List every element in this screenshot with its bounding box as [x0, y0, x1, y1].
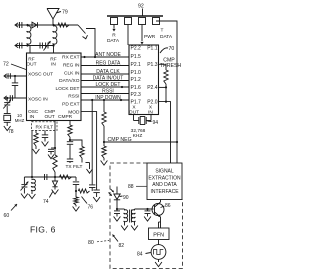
node row1-a [26, 24, 28, 26]
svg-text:MHZ: MHZ [15, 118, 25, 123]
svg-text:82: 82 [119, 243, 125, 249]
svg-text:DATA IN/OUT: DATA IN/OUT [93, 76, 124, 82]
resistor cmpr [68, 125, 72, 137]
capacitor chain1 [44, 174, 46, 180]
svg-text:70: 70 [169, 46, 175, 52]
ground xfmr-sec [131, 226, 138, 231]
crystal Y1 10MHZ [4, 113, 11, 115]
svg-text:IN: IN [148, 109, 153, 115]
ground bl-varicap [21, 194, 28, 199]
transformer T1 secondary [131, 209, 135, 223]
svg-text:P2.3: P2.3 [131, 92, 142, 98]
svg-text:INP DOWN: INP DOWN [95, 95, 121, 101]
svg-text:74: 74 [43, 199, 49, 205]
diode D1 [32, 22, 37, 28]
svg-text:AND DATA: AND DATA [152, 182, 177, 188]
off-page arrow xosc-in [4, 96, 7, 100]
svg-text:FIG. 6: FIG. 6 [30, 225, 56, 235]
varicap C3 [45, 43, 47, 49]
svg-text:92: 92 [138, 4, 144, 10]
ground mod-end [93, 197, 100, 202]
svg-text:IN: IN [30, 114, 35, 120]
svg-text:94: 94 [153, 120, 159, 126]
inductor bl [31, 179, 35, 193]
wire row2 [15, 45, 54, 47]
svg-text:P2.4: P2.4 [147, 85, 158, 91]
node cmpneg-right [176, 141, 178, 143]
resistor cmp-out [53, 155, 57, 172]
crystal Y2 [138, 117, 140, 124]
svg-text:90: 90 [123, 195, 129, 201]
svg-text:P1.1: P1.1 [147, 46, 158, 52]
label 90 [120, 195, 123, 198]
transformer core [129, 210, 131, 223]
wire RF IN stub [53, 46, 55, 54]
svg-text:REG DATA: REG DATA [96, 61, 121, 67]
svg-text:OUT: OUT [45, 114, 55, 120]
wire P1.3 [159, 64, 167, 70]
wire chain1 left-down [23, 177, 25, 184]
PFN box [149, 228, 170, 240]
varicap bl [21, 184, 27, 186]
node P2.0 join [165, 101, 167, 103]
off-page arrow row2 [15, 43, 18, 47]
capacitor base [147, 209, 149, 211]
svg-text:ANT NODE: ANT NODE [95, 52, 121, 58]
off-page arrow xosc-out [4, 74, 7, 78]
node chain1-a [31, 176, 33, 178]
wire P2.4 [159, 86, 167, 88]
wire xosc-in row [4, 97, 27, 99]
node lockdet-jog [121, 86, 123, 88]
node cmpneg-top [103, 99, 105, 101]
node inpdown-jog [120, 99, 122, 101]
svg-text:76: 76 [88, 205, 94, 211]
ground base-cap [144, 217, 151, 222]
wire osc-gnd [158, 259, 160, 262]
capacitor xosc-out [7, 73, 9, 79]
wire crystal branch [6, 98, 8, 102]
interface box 88 [147, 163, 182, 200]
wire chain2 up [91, 188, 93, 191]
resistor row1 [58, 23, 69, 27]
varicap crystal trim [4, 102, 10, 104]
photodiode 90 [116, 187, 118, 195]
microcontroller IC U2 [129, 45, 159, 115]
label 94 [148, 120, 152, 123]
svg-text:KHZ: KHZ [133, 133, 143, 139]
wire osc-in down [31, 121, 33, 178]
node xosc-in [6, 97, 8, 99]
svg-text:XOSC OUT: XOSC OUT [28, 71, 53, 77]
capacitor Cx between xosc rows [14, 76, 16, 83]
svg-text:P1.2: P1.2 [131, 77, 142, 83]
capacitor mod-end [93, 189, 99, 191]
svg-text:CLK IN: CLK IN [64, 70, 80, 76]
wire PFN-osc [158, 240, 160, 245]
wire sec-base [135, 208, 154, 210]
resistor rxfilt [35, 131, 37, 134]
svg-text:OUT: OUT [129, 109, 139, 115]
svg-text:P2.2: P2.2 [131, 46, 142, 52]
wire switch to RX EXT [86, 29, 95, 58]
svg-text:84: 84 [137, 252, 143, 258]
wire cmp-out down [54, 121, 56, 156]
svg-text:OUT: OUT [26, 61, 36, 67]
svg-text:DATA: DATA [107, 38, 120, 44]
svg-text:MOD: MOD [68, 109, 80, 115]
wire P2.0 [159, 102, 171, 163]
bus wires U1-U2 [81, 56, 129, 58]
svg-text:DATA/XO: DATA/XO [59, 78, 80, 84]
svg-text:T: T [161, 28, 164, 34]
antenna 79 [47, 9, 59, 20]
node cmp-out tap [54, 147, 56, 149]
svg-text:LOCK DET: LOCK DET [95, 82, 120, 88]
svg-text:60: 60 [4, 213, 10, 219]
transistor Q1 86 [152, 204, 164, 216]
wire collector [160, 200, 162, 203]
capacitor row2-left [19, 43, 21, 49]
capacitor row1-left [19, 22, 21, 28]
svg-text:RSSI: RSSI [102, 89, 114, 95]
svg-text:INTERFACE: INTERFACE [150, 189, 179, 195]
connector 92 bar [107, 15, 163, 17]
ground bl-down [73, 207, 80, 212]
svg-text:DATA: DATA [160, 34, 173, 40]
wire RF OUT stub [29, 46, 31, 54]
node det [116, 208, 118, 210]
capacitor bl-right [73, 181, 79, 183]
node row1-ant [52, 24, 54, 26]
node row2-a [26, 44, 28, 46]
node inpdown-tap [91, 99, 93, 101]
node cap-tap [146, 208, 148, 210]
node antnode-stub [83, 56, 85, 58]
ground xfmr-pri [121, 226, 128, 231]
off-page arrow row1 [15, 23, 18, 27]
diode bl to gnd [54, 177, 56, 181]
ground bl-coil [29, 194, 36, 199]
svg-text:RSSI: RSSI [68, 94, 79, 100]
node chain1-b [54, 176, 56, 178]
svg-text:P1.3: P1.3 [147, 62, 158, 68]
wire pin1 R DATA [113, 25, 115, 29]
svg-text:SIGNAL: SIGNAL [155, 169, 174, 175]
capacitor row2-mid [39, 43, 41, 49]
capacitor det [116, 209, 118, 211]
wire xin stub [150, 115, 152, 121]
svg-text:P2.1: P2.1 [131, 62, 142, 68]
node switch-antnode [94, 56, 96, 58]
transformer T1 primary [124, 209, 128, 223]
resistor cmpneg-1 [102, 112, 106, 126]
svg-text:XOSC IN: XOSC IN [28, 96, 48, 102]
wire varicap-crystal [6, 106, 8, 114]
wire pin3 arrow [141, 25, 143, 42]
connector 92 pins [111, 18, 118, 25]
svg-text:78: 78 [8, 129, 14, 135]
svg-text:PFN: PFN [153, 232, 164, 238]
capacitor cmpr-1 [69, 140, 71, 141]
svg-text:EXTRACTION: EXTRACTION [148, 175, 181, 181]
capacitor cmp-out side [51, 147, 55, 149]
switch S1 blade [78, 25, 86, 34]
svg-text:P1.5: P1.5 [131, 54, 142, 60]
svg-text:PD EXT: PD EXT [62, 102, 79, 108]
svg-text:TX FILT: TX FILT [66, 164, 83, 170]
wire xosc-out row [4, 75, 27, 77]
transceiver IC U1 [27, 53, 82, 121]
wire chain1 [24, 176, 76, 178]
wire pin2 [127, 25, 129, 46]
svg-text:IN: IN [51, 61, 56, 67]
wire row1 [15, 24, 78, 26]
node cmpr-a [69, 139, 71, 141]
wire xout stub [133, 115, 135, 121]
label 79 [56, 12, 61, 14]
svg-text:P1.6: P1.6 [131, 85, 142, 91]
inductor L2 [53, 25, 57, 46]
module box 80 [110, 163, 183, 269]
ground det-cap [114, 217, 121, 222]
ground cmp-out side [48, 155, 54, 159]
resistor chain2-h [78, 189, 89, 193]
node row2-b [52, 44, 54, 46]
capacitor rxfilt [44, 131, 46, 135]
node chain2-a [75, 190, 77, 192]
wire varicap-gnd [23, 188, 25, 194]
label 70 [160, 48, 168, 53]
photodiode arrows [111, 189, 114, 192]
resistor bl-down [75, 191, 77, 197]
ground rxfilt-r [33, 149, 40, 154]
svg-text:88: 88 [128, 184, 134, 190]
svg-text:P1.0: P1.0 [131, 70, 142, 76]
svg-text:RX EXT: RX EXT [62, 55, 79, 61]
capacitor cmpr-2 [67, 158, 73, 160]
ground crystal [4, 126, 11, 131]
inductor L1 [27, 25, 31, 46]
ground bl-diode [52, 190, 59, 195]
node P2.4 join [165, 86, 167, 88]
svg-text:DATA CLK: DATA CLK [96, 69, 120, 75]
ground txfilt-bracket [87, 169, 93, 173]
svg-text:72: 72 [3, 62, 9, 68]
svg-text:RX FILT: RX FILT [36, 125, 54, 131]
svg-text:LOCK DET: LOCK DET [56, 86, 80, 92]
RX FILT box [32, 122, 58, 131]
svg-text:86: 86 [165, 203, 171, 209]
resistor cmp-thresh [164, 70, 168, 84]
wire cmpr down [69, 121, 71, 126]
wire mod down [81, 112, 97, 190]
wire emitter-PFN [160, 217, 162, 228]
oscillator 84 [151, 245, 166, 260]
svg-text:79: 79 [62, 10, 68, 16]
capacitor inpdown-line [89, 184, 95, 186]
ground rxfilt-c [42, 142, 49, 147]
wire chain1 right-down [75, 177, 77, 181]
resistor txfilt [80, 147, 84, 159]
node cmpneg-mid [103, 141, 105, 143]
wire det-xfmr [117, 208, 125, 210]
wire cmpneg [104, 141, 177, 143]
wire cmpneg vertical [103, 100, 105, 112]
resistor cmpneg-2 [103, 142, 105, 146]
ground cmpneg [101, 161, 108, 166]
svg-text:R: R [112, 32, 116, 38]
wire txfilt branch [70, 140, 82, 147]
svg-text:80: 80 [88, 240, 94, 246]
wire pin4 T DATA [156, 21, 177, 163]
svg-text:PWR: PWR [144, 34, 156, 40]
ground osc [155, 262, 162, 267]
svg-text:REG IN: REG IN [63, 63, 80, 69]
capacitor xosc-in [9, 95, 11, 101]
resistor chain1-h [60, 175, 72, 179]
node xosc-out [14, 75, 16, 77]
